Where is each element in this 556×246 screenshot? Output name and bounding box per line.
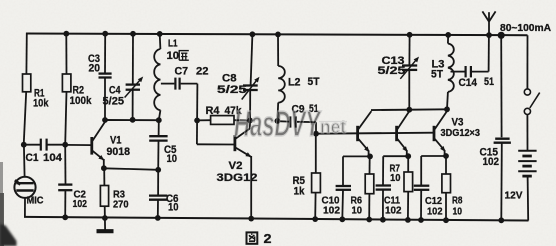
node L3 top [445,32,451,38]
wire R7 to ground rail [407,192,409,220]
svg-text:12V: 12V [505,190,523,202]
wire tank row [105,119,159,121]
node base row / R5 [313,131,319,137]
node C1/R2/base junction [62,142,68,148]
node L2 top [275,32,281,38]
resistor R4 [197,119,211,121]
wire emitter to R8 [445,156,447,174]
variable capacitor C4 [126,83,140,85]
capacitor C2 [58,183,72,185]
svg-text:102: 102 [385,205,402,217]
svg-text:102: 102 [323,205,340,217]
wire switch to battery [526,115,528,151]
node C12 ground [418,217,424,223]
node C4 top [130,31,136,37]
microphone MIC [14,177,35,198]
resistor R7 [404,172,413,192]
node C15 top junction [498,32,505,39]
capacitor C1 [24,144,40,146]
wire emitter to R7 [407,156,409,172]
svg-text:2: 2 [264,231,272,246]
wire V1 collector to tank node [104,120,106,122]
svg-text:5/25: 5/25 [378,65,406,77]
wire rail to C4 [132,34,134,85]
svg-text:10: 10 [390,172,401,184]
wire C9 down to base node [315,122,317,134]
svg-text:100k: 100k [70,95,93,107]
variable capacitor C13 [402,64,417,66]
capacitor C7 [161,83,175,85]
wire rail to switch [526,35,528,89]
resistor R5 [312,173,321,193]
node V2 emitter ground [248,216,254,222]
watermark [234,103,347,144]
svg-text:10: 10 [167,50,180,62]
capacitor C10 [336,185,351,187]
capacitor C11 [376,184,391,186]
wire emitter to C10 [343,155,370,157]
capacitor C14 [451,71,465,73]
node tank L1/C5 [156,117,162,123]
svg-text:V3: V3 [452,117,464,129]
node V2 collector / C8 [247,118,253,124]
antenna [488,12,490,35]
svg-text:R4: R4 [206,105,221,117]
inductor L3 [447,35,449,44]
node C2 ground [62,214,68,220]
wire R1 to C1 node [24,92,27,146]
wire emitter to R6 [369,156,371,174]
svg-text:5/25: 5/25 [217,84,247,96]
wire rail node down to C15 [500,35,502,137]
wire base wire C1 node to V1 [65,144,91,146]
transistor V3 second [397,111,410,156]
svg-text:104: 104 [43,152,63,164]
node V3 third emitter [443,153,449,159]
caption figure number [247,232,258,243]
wire V3 collector rail [371,108,447,111]
wire V1 emitter row [104,168,158,170]
node collector L3 [444,106,450,112]
wire R5 to ground rail [314,193,316,220]
node C3 top [102,31,108,37]
scan artifact corner blob [0,224,17,246]
svg-text:V1: V1 [110,135,122,147]
node C15 ground [498,217,504,223]
svg-text:10k: 10k [33,98,49,110]
node V3 first emitter [367,154,373,160]
transistor V3 third [434,111,447,157]
node R5 ground [312,216,318,222]
svg-text:5/25: 5/25 [103,96,125,108]
scan artifact left edge [0,162,3,246]
wire emitter to C12 [421,155,446,157]
wire C7 down to R4 node [196,84,198,121]
svg-text:5T: 5T [308,76,320,88]
wire rail to C3 [104,34,106,74]
node V3 second emitter [405,153,411,159]
node R7 ground [405,217,411,223]
inductor L2 [277,34,279,66]
resistor R8 [442,174,451,193]
svg-text:5T: 5T [431,69,443,81]
wire V2 collector up [249,121,251,130]
capacitor C3 [99,72,112,74]
node C1/R1/MIC junction [21,142,27,148]
svg-text:HasDVY: HasDVY [234,103,322,144]
capacitor C9 [289,116,291,127]
svg-text:22: 22 [196,66,209,78]
wire top supply rail [26,34,528,36]
wire R8 to ground rail [445,193,447,221]
node R4 left / V2 base [194,118,200,124]
node R8 ground [443,217,449,223]
svg-text:20: 20 [89,63,101,75]
svg-text:3DG12×3: 3DG12×3 [441,128,481,139]
transistor V2 [233,135,236,151]
wire rail to C8 [251,34,253,85]
svg-text:V2: V2 [229,160,243,172]
node tank C4 [130,117,136,123]
wire rail to R2 [65,34,67,75]
wire left edge top (rail to R1) [25,33,27,75]
transistor V3 first [358,111,372,156]
svg-text:102: 102 [73,198,88,210]
wire bottom ground rail [24,217,529,221]
node antenna junction [486,32,492,38]
resistor R2 [62,74,71,92]
wire emitter to C11 [383,155,408,157]
node C6 ground [155,215,161,221]
node L2 bottom [275,118,281,124]
wire tank node down to C5 [158,120,160,136]
svg-text:1k: 1k [294,186,306,198]
wire V2 emitter to ground rail [250,156,252,219]
wire node to V2 base [196,120,198,144]
svg-text:10: 10 [352,205,363,217]
label turns glyph [179,51,189,61]
svg-text:51: 51 [484,76,494,88]
wire R6 to ground rail [368,194,370,220]
svg-text:L1: L1 [168,39,178,50]
wire R3 to ground rail [104,206,106,218]
wire emitter node to R3 [103,168,105,185]
capacitor C15 [495,137,509,139]
wire C6 to ground rail [157,200,159,218]
svg-text:net: net [320,117,346,137]
node R2 top [63,31,69,37]
wire node to microphone [23,145,26,177]
node C10 ground [339,216,345,222]
node R3 ground junction [102,215,108,221]
transistor V1 [90,137,93,155]
switch S [524,89,530,95]
wire L2 node to C9 [277,120,289,122]
wire base row to V3 [316,133,434,134]
svg-text:102: 102 [483,156,500,168]
node L1 top [157,31,163,37]
svg-text:10: 10 [168,202,179,214]
svg-text:C8: C8 [222,73,237,85]
svg-text:C1: C1 [26,152,39,164]
svg-text:C14: C14 [459,77,478,89]
resistor R1 [23,74,31,92]
wire rail to C13 [408,35,410,65]
wire C5 to emitter row node [157,141,159,170]
svg-text:10: 10 [167,153,178,165]
svg-text:102: 102 [427,205,443,217]
node C8 top [250,31,256,37]
node C11 ground [380,217,386,223]
variable capacitor C8 [243,84,258,86]
node C13 top [407,32,413,38]
resistor R3 [100,186,108,207]
battery 12V [518,151,536,176]
ground symbol [104,218,106,230]
wire battery to ground rail [527,176,530,220]
capacitor C5 [149,135,167,137]
svg-text:MIC: MIC [27,195,44,207]
node collector C13 [406,107,412,113]
wire node down to C6 [157,170,159,196]
wire R2 to C1 node [65,92,66,145]
inductor L1 [159,34,162,49]
svg-text:80~100mA: 80~100mA [500,23,551,34]
node R6 ground [366,217,372,223]
wire C14 up to antenna node [488,35,490,72]
svg-text:270: 270 [113,198,129,210]
capacitor C6 [149,194,167,196]
node C5/C6 emitter row [155,167,161,173]
svg-text:10: 10 [453,205,463,217]
svg-text:C7: C7 [175,66,189,78]
wire microphone to ground rail [24,198,26,217]
svg-text:9018: 9018 [107,146,131,158]
node V1 emitter junction [101,165,107,171]
capacitor C12 [414,185,430,187]
node tank left [102,117,108,123]
resistor R6 [365,174,374,194]
wire V1 emitter down [103,159,105,168]
wire node down to C2 [64,145,66,185]
wire node to R5 [315,134,317,173]
svg-text:L2: L2 [288,77,301,89]
